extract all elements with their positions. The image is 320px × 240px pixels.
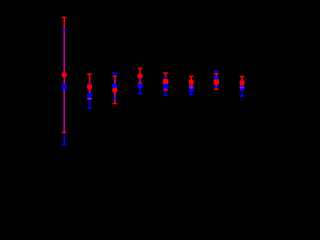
errorbar cap (blue), group 5 [163, 94, 168, 96]
errorbar cap (red), group 3 [113, 103, 118, 105]
errorbar cap (overlap), group 6 [189, 85, 194, 87]
data marker (blue), group 3 [112, 84, 117, 89]
errorbar stem segment (blue), group 3 [114, 73, 116, 76]
errorbar stem segment (overlap), group 1 [63, 30, 65, 133]
errorbar stem segment (overlap), group 4 [139, 78, 141, 83]
data marker (blue), group 5 [163, 84, 168, 89]
data marker (blue), group 4 [138, 84, 143, 89]
errorbar stem segment (overlap), group 2 [89, 84, 91, 98]
errorbar cap (red), group 4 [138, 82, 143, 84]
errorbar cap (blue), group 7 [214, 71, 219, 73]
data marker (blue), group 7 [214, 76, 219, 81]
errorbar stem segment (red), group 8 [241, 77, 243, 82]
errorbar stem segment (blue), group 8 [241, 88, 243, 97]
data marker (blue), group 1 [62, 85, 67, 90]
errorbar stem segment (blue), group 2 [89, 99, 91, 109]
errorbar cap (red), group 3 [113, 76, 118, 78]
data marker (red), group 1 [62, 72, 67, 77]
errorbar cap (blue), group 7 [214, 86, 219, 88]
errorbar stem segment (overlap), group 6 [191, 84, 193, 87]
errorbar stem segment (overlap), group 8 [241, 81, 243, 88]
errorbar stem segment (red), group 2 [89, 74, 91, 84]
errorbar stem segment (red), group 3 [114, 99, 116, 103]
errorbar cap (blue), group 3 [113, 99, 118, 101]
data marker (red), group 5 [163, 79, 168, 84]
errorbar cap (blue), group 3 [113, 72, 118, 74]
errorbar cap (blue), group 1 [62, 144, 67, 146]
data marker (red), group 4 [138, 74, 143, 79]
data marker (red), group 3 [112, 88, 117, 93]
errorbar stem segment (overlap), group 5 [165, 78, 167, 90]
errorbar stem segment (blue), group 7 [216, 72, 218, 74]
errorbar cap (red), group 4 [138, 68, 143, 70]
errorbar stem segment (overlap), group 7 [216, 74, 218, 88]
errorbar stem segment (red), group 7 [216, 87, 218, 89]
errorbar stem segment (red), group 4 [139, 69, 141, 79]
errorbar stem segment (red), group 1 [63, 17, 65, 29]
data marker (red), group 6 [189, 80, 194, 85]
data marker (red), group 8 [240, 81, 245, 86]
errorbar cap (red), group 6 [189, 76, 194, 78]
errorbar cap (blue), group 8 [240, 80, 245, 82]
data marker (red), group 2 [87, 84, 92, 89]
errorbar cap (blue), group 1 [62, 29, 67, 31]
errorbar cap (red), group 2 [87, 73, 92, 75]
errorbar cap (blue), group 2 [87, 84, 92, 86]
errorbar cap over marker (blue), group 6 [189, 94, 194, 96]
errorbar cap (red), group 1 [62, 17, 67, 19]
errorbar cap (red), group 5 [163, 89, 168, 91]
errorbar cap (blue), group 4 [138, 78, 143, 80]
errorbar stem segment (red), group 6 [191, 76, 193, 84]
errorbar stem segment (blue), group 1 [63, 132, 65, 144]
errorbar cap (red), group 5 [163, 72, 168, 74]
errorbar cap (red), group 8 [240, 76, 245, 78]
errorbar cap (red), group 7 [214, 73, 219, 75]
errorbar cap (blue), group 4 [138, 93, 143, 95]
errorbar stem segment (blue), group 5 [165, 90, 167, 95]
errorbar cap over marker (blue), group 8 [240, 95, 245, 97]
data marker (blue), group 6 [189, 88, 194, 93]
errorbar stem segment (blue), group 6 [191, 88, 193, 95]
data marker (blue), group 2 [87, 93, 92, 98]
errorbar cap (red), group 7 [214, 89, 219, 91]
errorbar cap over marker (overlap), group 8 [240, 87, 245, 89]
errorbar stem segment (overlap), group 3 [114, 76, 116, 99]
data marker (blue), group 8 [240, 85, 245, 90]
errorbar cap over marker (blue), group 2 [87, 108, 92, 110]
errorbar cap (red), group 1 [62, 132, 67, 134]
errorbar stem segment (red), group 5 [165, 73, 167, 78]
errorbar cap over marker (overlap), group 2 [87, 98, 92, 100]
errorbar stem segment (blue), group 4 [139, 83, 141, 94]
errorbar cap over marker (overlap), group 6 [189, 87, 194, 89]
data marker (red), group 7 [214, 79, 219, 84]
errorbar cap (blue), group 5 [163, 77, 168, 79]
